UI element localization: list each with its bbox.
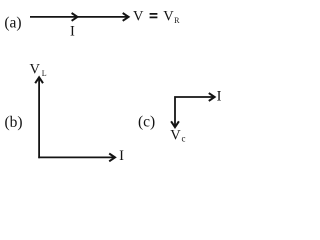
wire phasor I horizontal (b) — [38, 156, 113, 158]
svg-text:V: V — [30, 62, 41, 78]
arrowhead right I (b) — [109, 154, 115, 162]
svg-text:(a): (a) — [4, 15, 21, 32]
svg-text:I: I — [217, 88, 222, 104]
svg-text:(c): (c) — [138, 114, 155, 131]
wire phasor L-corner (c): I horizontal and VC vertical — [175, 97, 213, 126]
arrowhead end of phasor a (V) — [123, 13, 129, 21]
svg-text:(b): (b) — [5, 114, 23, 131]
svg-text:V: V — [133, 8, 144, 24]
svg-text:R: R — [174, 16, 180, 25]
svg-text:c: c — [182, 134, 186, 144]
arrowhead mid of phasor a (current I) — [72, 13, 78, 21]
wire phasor VL vertical (b) — [38, 79, 40, 159]
svg-text:V: V — [170, 128, 181, 144]
wire phasor line a (I and V=VR) — [30, 16, 127, 18]
arrowhead up VL — [35, 77, 43, 83]
svg-text:V: V — [163, 8, 174, 24]
arrowhead right I (c) — [209, 93, 215, 101]
svg-text:I: I — [119, 148, 124, 164]
arrowhead down VC — [171, 121, 179, 127]
svg-text:L: L — [42, 69, 47, 78]
svg-text:I: I — [70, 23, 75, 39]
